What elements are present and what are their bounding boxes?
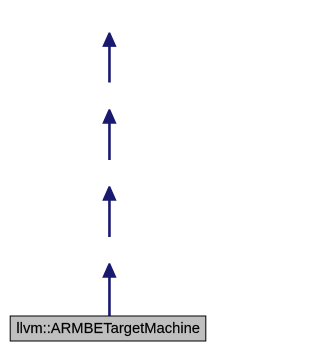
- svg-text:llvm::ARMBETargetMachine: llvm::ARMBETargetMachine: [16, 321, 200, 337]
